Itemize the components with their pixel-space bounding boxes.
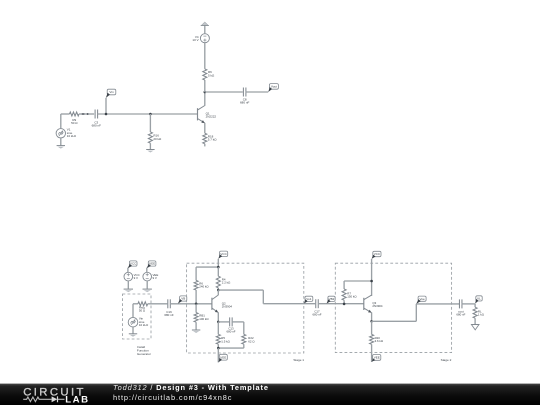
wire Rsig to C16 [148,303,168,305]
capacitor C16 [164,299,174,317]
wire Q3 emitter to node [370,313,373,323]
ground under V1 [57,138,65,149]
wire R6b to base node [195,290,198,305]
svg-text:62 Ω: 62 Ω [248,339,255,343]
flag VEE stage1 [218,348,227,362]
flag VCC stage1 [218,251,227,267]
flag VCC supply [128,261,137,272]
transistor Q3 [364,295,383,313]
svg-text:2.2 kΩ: 2.2 kΩ [222,281,231,285]
voltage source Vin (sine) [128,317,149,328]
svg-text:VL: VL [477,297,481,301]
junction at R16 top [149,113,152,116]
wire cout to RL [462,304,476,307]
svg-text:50 Ω: 50 Ω [71,121,78,125]
stage1 bottom rail [217,344,244,349]
node flag Vin [105,89,116,115]
resistor R7 150k [342,281,357,300]
power arrow above V4 [201,22,209,34]
svg-text:680 nF: 680 nF [313,313,322,317]
footer black bar [0,384,540,405]
svg-text:1 kΩ: 1 kΩ [478,313,485,317]
svg-text:10 kHz: 10 kHz [67,134,77,138]
wire emitter node to C13 [218,321,229,323]
label Stage 1 [293,358,304,362]
svg-text:1.5 kΩ: 1.5 kΩ [221,339,230,343]
ground under VEE source [143,281,152,292]
stage2 top rail [344,280,373,283]
svg-text:9 V: 9 V [153,276,157,280]
svg-text:Todd312 / Design #3 - With Tem: Todd312 / Design #3 - With Template [113,383,269,392]
resistor RB1 100k [194,304,209,322]
wire C13 to R22 top [232,322,244,334]
stage 1 dashed box [187,263,304,353]
svg-text:Generator: Generator [137,352,151,356]
ground under Vin [129,327,137,337]
wire C17 to Q3 base [318,303,364,305]
svg-text:Vo1: Vo1 [306,297,312,301]
wire collector node to C8 [205,91,243,93]
wire C3 to base of Q1 [98,113,198,115]
svg-text:9 V: 9 V [134,276,138,280]
resistor R18 (emitter) [203,133,218,146]
collector node [204,91,207,94]
svg-text:VB: VB [181,297,185,301]
footer url line [113,393,232,402]
svg-text:Vout: Vout [271,85,277,89]
svg-text:150 kΩ: 150 kΩ [347,295,357,299]
svg-text:680 nF: 680 nF [92,123,102,127]
label Stage 2 [441,358,452,362]
svg-text:50 Ω: 50 Ω [139,308,146,312]
voltage source VEE 9V [143,272,158,281]
wire Q2 collector [217,290,219,295]
CircuitLab logo word CIRCUIT [23,387,86,399]
resistor Rsig [138,302,148,313]
node flag Vout stage2 [416,296,426,304]
svg-text:Voe: Voe [420,297,426,301]
resistor R16 [148,114,162,143]
svg-text:http://circuitlab.com/c94xn8c: http://circuitlab.com/c94xn8c [113,393,232,402]
svg-text:Stage 1: Stage 1 [293,358,304,362]
wire R4 to collector node [217,288,220,292]
resistor R6 (collector load) [203,69,215,92]
function generator dashed box [123,294,152,339]
capacitor C3 [92,110,102,128]
resistor R5 1.5k [216,322,230,344]
svg-text:680 nF: 680 nF [227,329,236,333]
wire R7 to base node [343,300,346,305]
wire V1 top to corner [61,114,70,129]
node flag VC1 [304,296,313,303]
svg-text:VEE: VEE [149,262,155,266]
svg-text:2N2222: 2N2222 [206,115,217,119]
stage1 top rail [196,266,220,269]
svg-text:Vin: Vin [109,90,114,94]
flag VCC stage2 [372,251,381,296]
capacitor C8 [240,88,250,105]
capacitor C13 [227,317,236,333]
stage1 collector out wire [218,290,315,304]
svg-text:680 nF: 680 nF [164,313,174,317]
svg-text:2N3904: 2N3904 [372,304,383,308]
flag VEE supply [147,261,156,272]
svg-text:680 nF: 680 nF [240,100,250,104]
svg-text:VB2: VB2 [329,297,335,301]
svg-text:VEE: VEE [220,355,226,359]
node flag VL [475,296,482,304]
node flag Vout [268,84,278,92]
node flag VB2 [327,296,336,303]
svg-text:5.7 kΩ: 5.7 kΩ [208,138,218,142]
resistor R22 62ohm [242,334,256,344]
wire C8 to Vout [246,91,269,93]
svg-text:680 nF: 680 nF [456,312,465,316]
transistor Q1 [198,106,217,124]
wire R9 to C3 with probe dots [79,113,94,115]
wire Q2 emitter to node [217,312,220,323]
voltage source V1 (sine, input) [56,128,77,138]
wire C16 to stage 1 [170,303,212,305]
svg-text:VCC: VCC [374,252,381,256]
svg-text:VCC: VCC [220,252,227,256]
transistor Q2 [212,295,232,313]
wire Vin to Rsig corner [133,304,138,318]
ground under VCC source [124,281,133,292]
svg-text:VCC: VCC [130,262,137,266]
stage 2 dashed box [335,263,451,352]
svg-text:Stage 2: Stage 2 [441,358,452,362]
svg-text:100 kΩ: 100 kΩ [199,317,209,321]
resistor R6b 240k [194,267,209,290]
svg-text:3.6 kΩ: 3.6 kΩ [375,339,384,343]
svg-text:240 kΩ: 240 kΩ [199,285,209,289]
capacitor cout [456,299,465,316]
svg-text:VEE: VEE [374,356,380,360]
svg-text:5 kΩ: 5 kΩ [208,73,215,77]
svg-text:2N3904: 2N3904 [222,304,233,308]
resistor RL 1k [473,307,485,318]
wire Q1 emitter down [204,123,206,133]
capacitor C17 [313,299,322,316]
flag VEE stage2 [372,344,381,362]
wire Q1 collector up [204,92,206,106]
svg-text:10 kHz: 10 kHz [139,323,149,327]
resistor R20 3.6k [370,321,384,344]
svg-text:LAB: LAB [65,394,90,405]
open ground under RL [471,318,479,330]
svg-text:20 kΩ: 20 kΩ [153,137,162,141]
logo word LAB [65,394,90,405]
voltage source VCC 9V [124,272,140,281]
label Install Function Generator [137,345,151,356]
svg-text:10 V: 10 V [192,38,198,42]
node flag VB [178,296,187,304]
footer title line [113,383,269,392]
voltage source V4 [192,34,209,69]
ground under R16 [146,143,154,152]
ground under RB1 [192,322,200,333]
resistor R4 2.2k [216,267,231,288]
resistor R9 [70,112,80,125]
stage2 emitter out wire [372,304,460,321]
logo resistor-diode glyph [23,396,64,402]
